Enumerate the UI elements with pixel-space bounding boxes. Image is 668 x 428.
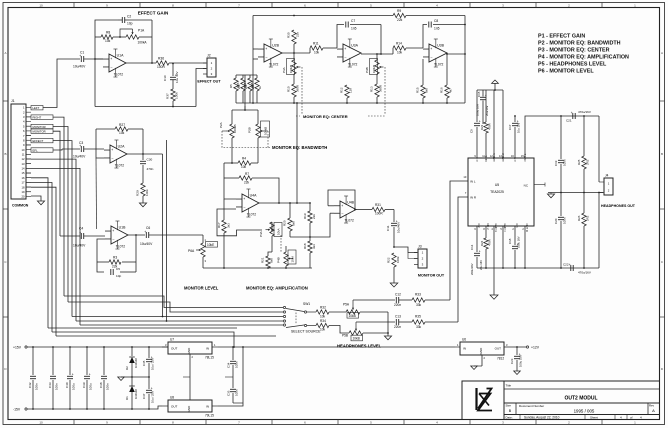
svg-text:R32: R32 <box>320 305 326 309</box>
svg-text:–: – <box>244 205 246 209</box>
wire riser EFFECT to bus <box>53 141 72 317</box>
svg-text:+: + <box>111 148 113 152</box>
capacitor C34 100n <box>232 347 234 360</box>
potentiometer P4B 10kA <box>284 252 288 266</box>
wire riser parallel to bus <box>166 140 168 321</box>
svg-text:–: – <box>342 211 344 215</box>
capacitor C5 10p <box>110 269 112 275</box>
resistor R4 10k <box>224 162 238 164</box>
svg-text:+: + <box>112 229 114 233</box>
svg-text:1995 / 005: 1995 / 005 <box>574 409 595 414</box>
capacitor C37 10u/25V <box>148 377 150 389</box>
op-amp U4B <box>340 201 356 218</box>
capacitor C21 470u/16V <box>572 113 574 119</box>
svg-text:R21: R21 <box>261 257 265 263</box>
resistor R12 12k <box>346 64 348 85</box>
svg-text:OUT: OUT <box>171 405 178 409</box>
wire U4B feedback <box>328 190 355 210</box>
svg-text:17: 17 <box>22 181 25 185</box>
svg-text:10u/40V: 10u/40V <box>397 222 401 233</box>
wire long rail A <box>48 327 237 329</box>
svg-text:470u/16V: 470u/16V <box>578 271 591 275</box>
svg-text:10u 40V: 10u 40V <box>175 71 179 83</box>
wire to U4B input <box>310 213 330 237</box>
svg-text:MONITOR: MONITOR <box>33 125 46 129</box>
ground supply mid <box>121 376 132 378</box>
svg-text:P1A: P1A <box>138 29 145 33</box>
svg-text:P6A: P6A <box>188 249 195 253</box>
svg-text:15: 15 <box>22 171 25 175</box>
switch SW1 select source <box>283 306 285 308</box>
svg-text:100u: 100u <box>89 383 93 390</box>
size cell <box>515 403 517 415</box>
resistor R15 6k8 <box>422 59 424 64</box>
svg-text:10u / 25V: 10u / 25V <box>151 358 155 370</box>
svg-text:+: + <box>110 57 112 61</box>
terminal -15V <box>25 408 27 410</box>
svg-text:100u: 100u <box>72 383 76 390</box>
resistor R19 22k <box>309 203 311 211</box>
capacitor C9 100u/16V <box>476 90 478 122</box>
svg-text:U5: U5 <box>495 183 499 187</box>
capacitor C4 10u/40V <box>60 235 80 237</box>
potentiometer P5A 10kB <box>346 310 360 314</box>
svg-text:GND: GND <box>479 347 483 355</box>
potentiometer P1A 100kA <box>126 35 139 39</box>
svg-text:C2: C2 <box>127 15 131 19</box>
svg-text:P2A: P2A <box>219 122 223 128</box>
svg-text:R4: R4 <box>242 157 246 161</box>
wire supply mid rail <box>132 376 149 378</box>
wire dashed bandwidth link <box>222 130 226 132</box>
svg-text:2R2: 2R2 <box>586 215 590 221</box>
svg-text:RIGHT: RIGHT <box>33 115 42 119</box>
wire headphone ground rail <box>548 192 603 194</box>
capacitor C14 200u/16V <box>476 226 478 252</box>
net label EFL <box>31 148 53 152</box>
wire switch outputs <box>307 311 316 313</box>
svg-text:100kB: 100kB <box>372 65 376 73</box>
svg-text:18: 18 <box>22 185 25 189</box>
wire bus line 4 to switch <box>76 320 283 322</box>
ground headphone <box>547 194 554 198</box>
svg-text:+: + <box>479 250 481 254</box>
wire dashed amplification link <box>280 235 282 252</box>
wire TEA NC stub <box>534 184 545 186</box>
svg-text:C7: C7 <box>351 19 355 23</box>
potentiometer P4A 10kA <box>271 222 273 230</box>
svg-text:C10: C10 <box>163 75 167 81</box>
resistor R33 33k <box>412 298 425 302</box>
wire TEA bottom rail <box>477 267 599 269</box>
svg-text:U7: U7 <box>170 338 174 342</box>
svg-text:R29: R29 <box>136 190 140 196</box>
wire amplification bottom joins <box>267 267 269 269</box>
wire dashed P3A wiper <box>301 67 303 114</box>
svg-text:C38: C38 <box>99 382 103 388</box>
svg-text:TL072: TL072 <box>114 73 124 77</box>
resistor R8 10k <box>95 36 101 38</box>
svg-text:+: + <box>569 263 571 267</box>
svg-text:R14: R14 <box>396 42 402 46</box>
svg-text:A: A <box>652 408 655 413</box>
svg-text:100u 16V: 100u 16V <box>517 236 521 248</box>
potentiometer P6A 10kE <box>202 235 204 243</box>
potentiometer P5B 10kB <box>349 331 363 335</box>
svg-text:10k: 10k <box>314 51 320 55</box>
capacitor C12 220n <box>395 297 397 303</box>
wire bus line 2 to switch <box>68 302 283 312</box>
resistor R38 1k <box>255 78 259 91</box>
svg-text:100kB: 100kB <box>289 65 293 73</box>
title block rows <box>504 388 660 390</box>
resistor R32 10k <box>316 310 329 314</box>
svg-text:R9: R9 <box>397 9 401 13</box>
svg-text:P6 - MONITOR LEVEL: P6 - MONITOR LEVEL <box>538 69 594 75</box>
svg-text:MONITOR LEVEL: MONITOR LEVEL <box>184 286 219 291</box>
svg-text:R5: R5 <box>229 84 233 88</box>
svg-text:OUT R: OUT R <box>525 224 529 232</box>
ground C23 <box>514 371 521 374</box>
capacitor C19 100n <box>560 116 562 159</box>
svg-text:100u 16V: 100u 16V <box>476 104 480 116</box>
svg-text:R18: R18 <box>303 243 307 249</box>
potentiometer P2A 100kB <box>231 110 233 124</box>
svg-text:of: of <box>630 415 633 419</box>
svg-text:22k: 22k <box>296 32 300 37</box>
svg-text:470R: 470R <box>488 239 492 246</box>
svg-text:C13: C13 <box>395 315 401 319</box>
wire riser C3 feed from EFL <box>53 149 62 150</box>
IC U5 TEA2025 <box>468 158 534 226</box>
svg-text:33k: 33k <box>416 325 422 329</box>
svg-text:–: – <box>266 55 268 59</box>
ground TEA bottom <box>490 295 498 299</box>
connector J1 20-pin <box>11 104 26 199</box>
wire riser pin14 to bus <box>31 168 80 325</box>
svg-text:100n: 100n <box>563 217 567 224</box>
resistor R36 100R <box>156 61 169 65</box>
wire TEA IN R feed <box>458 197 468 322</box>
capacitor C33 100n <box>232 377 234 388</box>
power arrow +V TEA <box>492 80 499 83</box>
svg-text:A: A <box>661 51 663 55</box>
resistor R10 390R <box>292 84 296 97</box>
svg-text:6k8: 6k8 <box>292 221 296 226</box>
resistor R37 100k <box>172 80 174 89</box>
svg-text:P3A: P3A <box>282 67 286 73</box>
capacitor C1 10u/40V <box>58 58 80 60</box>
wire raw supply rail to U6 <box>218 346 455 348</box>
svg-text:Title: Title <box>506 384 512 388</box>
svg-text:D1: D1 <box>125 396 129 400</box>
svg-text:C11: C11 <box>386 225 390 231</box>
svg-text:12: 12 <box>22 157 25 161</box>
svg-text:10: 10 <box>39 421 43 425</box>
capacitor C8 1n5 <box>428 22 430 28</box>
svg-text:U4B: U4B <box>347 201 354 205</box>
svg-text:P2 - MONITOR EQ: BANDWIDTH: P2 - MONITOR EQ: BANDWIDTH <box>538 41 621 47</box>
resistor R13 390R <box>375 84 379 97</box>
resistor R14 10k <box>393 46 406 50</box>
svg-text:COMMON: COMMON <box>12 204 29 208</box>
svg-text:1n5: 1n5 <box>351 27 357 31</box>
svg-text:+12V: +12V <box>531 346 540 350</box>
wire EQ output drop to amplification <box>296 103 298 203</box>
svg-text:100n: 100n <box>55 383 59 390</box>
svg-text:19: 19 <box>22 190 25 194</box>
op-amp U2B <box>264 44 282 62</box>
svg-text:U6: U6 <box>462 338 466 342</box>
svg-text:A: A <box>4 51 6 55</box>
wire dashed P3B wiper <box>384 67 386 114</box>
svg-text:P4 - MONITOR EQ: AMPLIFICATION: P4 - MONITOR EQ: AMPLIFICATION <box>538 55 629 61</box>
wire EQ bottom rail <box>236 102 465 104</box>
svg-text:–: – <box>112 156 114 160</box>
resistor R26b 22k <box>241 78 245 91</box>
svg-text:EFFECT: EFFECT <box>33 139 44 143</box>
svg-text:C33: C33 <box>227 390 231 396</box>
svg-text:P3B: P3B <box>365 67 369 73</box>
svg-text:C30: C30 <box>147 158 153 162</box>
svg-text:1n5: 1n5 <box>434 27 440 31</box>
wire bus line 3 to switch <box>72 316 283 318</box>
resistor R25 2R2 <box>583 116 585 156</box>
svg-text:10k: 10k <box>397 51 403 55</box>
logo cell <box>462 381 504 420</box>
wire TEA GND3 GND4 to ground <box>493 226 495 295</box>
svg-text:OUT2 MODUL: OUT2 MODUL <box>564 396 597 402</box>
wire U4B input upper <box>328 205 334 207</box>
svg-text:R24: R24 <box>480 240 484 246</box>
capacitor C17 10u/16V <box>514 116 516 122</box>
potentiometer P3A 100kB <box>293 53 295 60</box>
svg-text:–: – <box>345 55 347 59</box>
svg-text:100R: 100R <box>375 212 383 216</box>
wire U4B input lower <box>330 212 334 214</box>
svg-text:HEADPHONES OUT: HEADPHONES OUT <box>601 204 636 208</box>
svg-text:79L15: 79L15 <box>205 414 214 418</box>
wire U6 in stub <box>455 346 460 348</box>
svg-text:+: + <box>430 47 432 51</box>
wire U2A feedback box <box>96 129 104 158</box>
svg-text:100k: 100k <box>396 256 400 263</box>
net label MONITOR+ <box>31 124 53 128</box>
svg-text:OUT: OUT <box>171 347 178 351</box>
wire bus line 1 to switch <box>64 296 283 308</box>
wire TEA IN L feed <box>450 181 468 300</box>
wire OUT R column <box>524 226 526 268</box>
svg-text:100k: 100k <box>145 189 149 196</box>
svg-text:C 2: C 2 <box>477 224 481 229</box>
wire U1B feedback box <box>97 239 105 262</box>
wire bandwidth pots feed <box>244 75 246 110</box>
op-amp U3B <box>429 44 447 62</box>
svg-text:200u/16V: 200u/16V <box>470 263 474 275</box>
svg-text:MONITOR EQ: AMPLIFICATION: MONITOR EQ: AMPLIFICATION <box>246 286 308 291</box>
svg-text:+: + <box>571 111 573 115</box>
wire U2B output <box>282 52 310 54</box>
capacitor C43 100n <box>52 347 54 375</box>
resistor R26 2R2 <box>583 193 585 214</box>
wire U4A inputs <box>224 163 236 199</box>
svg-text:P3 - MONITOR EQ: CENTER: P3 - MONITOR EQ: CENTER <box>538 48 610 54</box>
wire J1 pin stubs to nets <box>26 116 31 118</box>
op-amp U3A <box>343 44 361 62</box>
svg-text:R34: R34 <box>320 319 326 323</box>
svg-text:U1B: U1B <box>119 226 126 230</box>
resistor R34 10k <box>316 323 329 327</box>
wire U1A feedback box <box>94 37 96 107</box>
svg-text:10kA: 10kA <box>276 228 280 235</box>
svg-text:1N4148: 1N4148 <box>134 389 138 399</box>
svg-text:6k8: 6k8 <box>270 258 274 263</box>
svg-text:C21: C21 <box>566 119 572 123</box>
svg-text:R26: R26 <box>577 215 581 221</box>
svg-text:J1: J1 <box>11 99 15 103</box>
ground U2A load <box>139 203 146 207</box>
wire U8 pins <box>162 405 168 407</box>
svg-text:R26: R26 <box>236 82 240 88</box>
svg-text:LEFT: LEFT <box>33 106 40 110</box>
svg-text:C37: C37 <box>142 393 146 399</box>
wire riser RIGHT to bus <box>53 117 64 296</box>
svg-text:SW1: SW1 <box>303 302 310 306</box>
resistor R28 22k <box>248 78 252 91</box>
svg-text:+: + <box>344 47 346 51</box>
svg-text:EFFECT GAIN: EFFECT GAIN <box>138 11 169 16</box>
wire +15V rail <box>27 346 168 348</box>
resistor R3 22k <box>109 260 121 264</box>
wire headphone ground <box>387 312 389 336</box>
wire U2A output <box>127 153 163 155</box>
svg-text:390R: 390R <box>296 85 300 92</box>
capacitor C22 470u/16V <box>570 265 572 271</box>
svg-text:3k3: 3k3 <box>312 244 316 249</box>
wire long rail C <box>56 335 276 337</box>
svg-text:C15: C15 <box>477 91 481 97</box>
svg-text:10: 10 <box>39 4 43 8</box>
potentiometer P2B 100kB <box>257 110 259 124</box>
svg-text:10k: 10k <box>105 39 111 43</box>
svg-text:TEA2025: TEA2025 <box>490 190 504 194</box>
svg-text:TL072: TL072 <box>247 213 257 217</box>
svg-text:7812: 7812 <box>497 357 504 361</box>
svg-text:U8: U8 <box>170 396 174 400</box>
wire U8 in column <box>218 347 243 406</box>
diode D1 1N4148 <box>131 377 133 386</box>
terminal +15V <box>25 346 27 348</box>
wire TEA top bus bar <box>477 89 503 91</box>
svg-text:10k: 10k <box>241 165 247 169</box>
wire U3A plus input <box>337 58 343 60</box>
svg-text:+: + <box>72 373 74 377</box>
svg-text:6k8: 6k8 <box>425 88 429 93</box>
svg-text:10u/40V: 10u/40V <box>140 242 153 246</box>
resistor R21 6k8 <box>268 252 272 256</box>
svg-text:TL072: TL072 <box>344 219 354 223</box>
capacitor C42 100n <box>32 347 34 375</box>
svg-text:100R: 100R <box>157 65 166 69</box>
svg-text:10kB: 10kB <box>353 337 360 341</box>
svg-text:+: + <box>341 204 343 208</box>
capacitor C15 100u/16V <box>482 90 484 97</box>
svg-text:+: + <box>79 231 81 235</box>
svg-text:C19: C19 <box>554 160 558 166</box>
wire U6 out to +12V <box>504 346 526 348</box>
svg-text:TL072: TL072 <box>115 164 125 168</box>
svg-text:10u/40V: 10u/40V <box>73 155 86 159</box>
svg-text:U2A: U2A <box>118 145 125 149</box>
capacitor C11 10u/40V <box>393 210 395 223</box>
wire riser U2A out to bus <box>162 154 164 317</box>
resistor R27 10k <box>115 127 128 131</box>
op-amp U1A <box>109 54 126 72</box>
svg-text:C34: C34 <box>227 362 231 368</box>
ground monitor out <box>390 283 398 287</box>
svg-text:R23: R23 <box>480 124 484 130</box>
capacitor C2 10p <box>121 17 123 23</box>
svg-text:HEADPHONES LEVEL: HEADPHONES LEVEL <box>337 344 382 349</box>
svg-text:J2: J2 <box>207 54 211 58</box>
svg-text:C23: C23 <box>510 358 514 364</box>
capacitor C7 1n5 <box>345 22 347 28</box>
diode D2 1N4148 <box>131 347 133 356</box>
svg-text:+: + <box>151 387 153 391</box>
svg-text:–: – <box>431 55 433 59</box>
resistor R23 470R <box>485 90 487 122</box>
wire effect-gain bottom rail <box>95 106 196 108</box>
wire riser pin17 to bus <box>31 183 52 333</box>
svg-text:R22: R22 <box>387 257 391 263</box>
svg-text:R35: R35 <box>415 315 421 319</box>
svg-text:–: – <box>113 237 115 241</box>
logo kZ <box>477 388 493 411</box>
capacitor C18 100u/16V <box>514 226 516 245</box>
svg-text:–: – <box>111 65 113 69</box>
svg-text:MONITOR: MONITOR <box>33 130 46 134</box>
wire OUT L to headphone rail <box>525 116 599 158</box>
svg-text:J4: J4 <box>605 174 609 178</box>
capacitor C30 470n <box>140 160 146 162</box>
label MONITOR EQ: CENTER dashed <box>296 115 300 117</box>
svg-text:C40: C40 <box>65 382 69 388</box>
wire bandwidth top feeds <box>232 109 258 111</box>
resistor R7 22k feedback <box>224 177 239 179</box>
resistor R17 3k3 <box>223 199 225 220</box>
wire riser C4 feed from MONITOR <box>53 131 60 236</box>
svg-text:U2B: U2B <box>272 44 279 48</box>
svg-text:U3A: U3A <box>351 44 358 48</box>
svg-text:22k: 22k <box>244 180 250 184</box>
op-amp U2A <box>110 145 127 163</box>
svg-text:U3B: U3B <box>437 44 444 48</box>
svg-text:100n: 100n <box>563 159 567 166</box>
svg-text:C20: C20 <box>554 218 558 224</box>
svg-text:100k: 100k <box>175 92 179 99</box>
svg-text:IN: IN <box>206 347 209 351</box>
op-amp U1B <box>111 226 128 244</box>
svg-text:NC 2: NC 2 <box>486 224 490 231</box>
svg-text:R8: R8 <box>106 30 110 34</box>
svg-text:Sheet: Sheet <box>590 415 598 419</box>
resistor R22 100k <box>392 253 396 267</box>
svg-text:220n: 220n <box>394 303 401 307</box>
svg-text:Sunday, August 22, 2010: Sunday, August 22, 2010 <box>524 415 560 419</box>
svg-text:-15V: -15V <box>13 408 21 412</box>
svg-text:2R2: 2R2 <box>586 159 590 165</box>
capacitor C6 10u/40V <box>145 232 147 238</box>
